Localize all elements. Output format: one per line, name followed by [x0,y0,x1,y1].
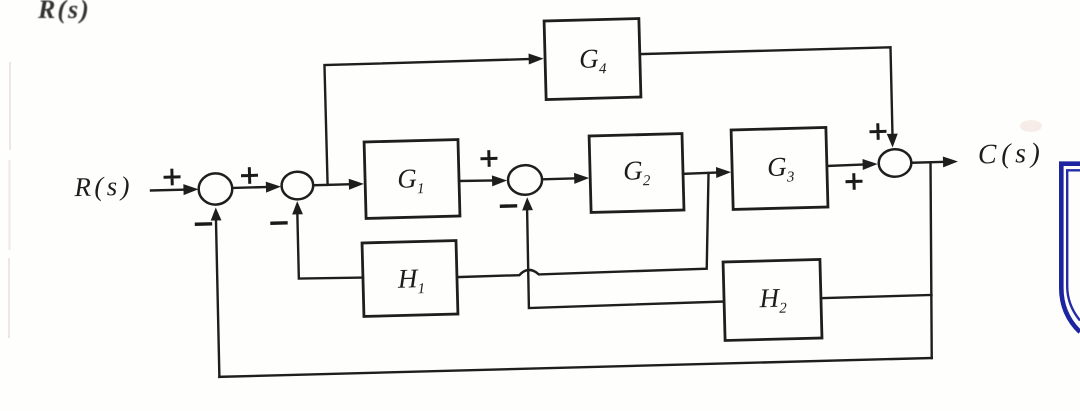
wire H1 output to summer S2 bottom [297,212,363,280]
plus sign at S2 input [242,169,256,183]
wire S1 to S2 [233,186,268,189]
block G4 [544,19,641,100]
plus sign at S4 top input [871,125,885,139]
wire G1 to summer S3 [459,180,494,181]
svg-text:C(s): C(s) [977,138,1044,171]
wire G3 to summer S4 [827,165,864,166]
wire S2 to block G1 [314,183,351,186]
summing junction S3 [508,165,543,195]
block H1 [362,241,458,317]
minus sign at S1 bottom input [196,222,210,226]
summing junction S4 [878,149,911,177]
svg-text:R(s): R(s) [37,0,91,24]
plus sign at S4 left input [847,174,861,188]
wire takeoff after G2 down to H1 input [455,173,711,277]
plus sign at S3 input [482,152,496,166]
wire input to summer S1 [151,188,186,191]
minus sign at S2 bottom input [272,221,286,225]
wire G2 to block G3 [683,173,718,174]
logo shield outer outline (blue, cropped at right) [1061,164,1080,332]
block G2 [589,134,684,213]
block H2 [723,259,822,340]
faint scan smudge near C(s) [1020,120,1042,132]
wire takeoff riser to G4 [324,59,533,185]
wire S3 to block G2 [543,177,576,180]
wire H2 output to summer S3 bottom [526,203,724,308]
wire output takeoff to H2 input [821,295,932,298]
block G1 [364,140,460,219]
wire output takeoff down [927,162,936,358]
wire outer feedback up into S1 bottom [215,217,220,376]
minus sign at S3 bottom input [502,204,516,208]
wire G4 to summer S4 top [640,47,893,141]
svg-text:R(s): R(s) [73,171,133,203]
block G3 [731,127,828,209]
logo shield inner outline [1067,170,1080,320]
summing junction S2 [281,171,313,199]
wire outer feedback bottom run [219,358,931,377]
wire S4 to output C(s) [913,161,945,164]
left page-edge scan artifact [9,62,10,338]
summing junction S1 [198,173,232,205]
plus sign at S1 input [165,170,179,184]
